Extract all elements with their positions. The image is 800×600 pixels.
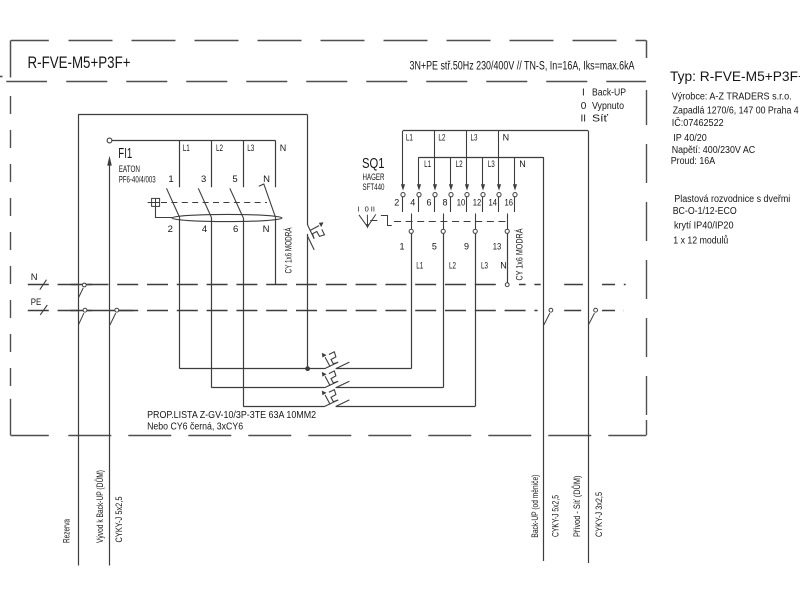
svg-text:L2: L2 [449, 260, 456, 270]
svg-text:Plastová rozvodnice s dveřmi: Plastová rozvodnice s dveřmi [674, 194, 790, 205]
svg-text:BC-O-1/12-ECO: BC-O-1/12-ECO [673, 206, 737, 217]
cable label CY 1x6 MODRA at FI1 [283, 227, 294, 273]
cable label Vyvod k Back-UP [94, 470, 106, 543]
switch SQ1 type label [363, 181, 385, 192]
svg-text:12: 12 [473, 198, 482, 208]
svg-text:Nebo CY6 černá, 3xCY6: Nebo CY6 černá, 3xCY6 [147, 422, 243, 433]
wire: riser SQ1 pole9 [336, 233, 476, 406]
type info text block [670, 69, 800, 167]
svg-text:2: 2 [168, 224, 173, 235]
SQ1 selector symbol [359, 214, 392, 228]
cable label CYKY-J 5x2,5 left [114, 497, 125, 543]
svg-text:5: 5 [432, 242, 437, 252]
PE bus label [31, 296, 42, 307]
svg-text:L3: L3 [488, 159, 495, 169]
switch SQ1 designation [362, 156, 385, 172]
svg-text:N: N [280, 143, 287, 153]
FI1 pole L2 top stub [211, 141, 213, 188]
busbar link fuse symbol L2 [322, 371, 350, 388]
svg-text:L2: L2 [438, 133, 445, 143]
svg-text:IČ:07462522: IČ:07462522 [672, 118, 724, 129]
wire: FI1 L3 to busbar link [243, 406, 324, 408]
svg-text:SFT440: SFT440 [363, 181, 385, 192]
svg-text:9: 9 [464, 242, 469, 252]
svg-text:N: N [500, 260, 507, 270]
svg-text:6: 6 [426, 198, 431, 208]
svg-text:L1: L1 [416, 260, 423, 270]
svg-text:II: II [371, 204, 375, 213]
svg-text:0: 0 [365, 204, 369, 213]
svg-text:N: N [503, 133, 510, 143]
SQ1 output terminal circles [409, 229, 509, 233]
svg-text:13: 13 [493, 242, 502, 252]
cabinet designation label R-FVE-M5+P3F+ [28, 53, 131, 72]
enclosure/title box dashed frame top edge [11, 40, 647, 77]
wire: riser SQ1 pole1 [336, 233, 412, 369]
svg-text:EATON: EATON [119, 163, 140, 174]
PE bus tap switch to backup output wire [110, 308, 119, 325]
svg-text:Přívod - Síť (DŮM): Přívod - Síť (DŮM) [571, 476, 583, 538]
svg-text:3: 3 [201, 174, 206, 185]
svg-text:Rezerva: Rezerva [62, 519, 73, 543]
PE bus tap switch to backup supply [544, 308, 553, 325]
wire: FI1 L1 to busbar link [180, 368, 325, 370]
grid feeder phase labels [406, 133, 509, 143]
svg-text:CYKY-J 5x2,5: CYKY-J 5x2,5 [114, 497, 125, 543]
svg-text:CY 1x6 MODRÁ: CY 1x6 MODRÁ [514, 228, 525, 280]
svg-text:1: 1 [168, 174, 173, 185]
FI1 test button [148, 198, 160, 206]
svg-text:14: 14 [489, 198, 498, 208]
svg-text:L1: L1 [406, 133, 413, 143]
FI1 pole L1 top stub [179, 141, 181, 188]
svg-text:PE: PE [31, 296, 42, 307]
PE bus line [28, 305, 624, 315]
wire: FI1 L2 to busbar link [212, 387, 325, 389]
cable label Back-UP od menice [530, 475, 541, 538]
wire: FI1 L1 output down [179, 218, 181, 369]
svg-text:N: N [31, 271, 38, 282]
wire: backup output vertical [109, 160, 111, 566]
svg-text:10: 10 [457, 198, 466, 208]
FI1 top wire [112, 140, 276, 142]
bus dash gaps at tap points [500, 282, 602, 313]
backup feeder phase labels [424, 159, 526, 169]
svg-text:I: I [357, 204, 359, 213]
SQ1 output phase labels [416, 260, 507, 270]
cable label Rezerva [62, 519, 73, 543]
svg-text:16: 16 [505, 198, 514, 208]
svg-text:L1: L1 [183, 143, 190, 153]
wire: SQ1 N output to N bus [505, 233, 509, 286]
SQ1 pin numbers bottom [399, 242, 501, 252]
FI1 contact blade pole N with hook [259, 184, 276, 218]
RCD FI1 maker label [119, 163, 140, 174]
title box bottom dashed line [6, 81, 646, 83]
wire: loop top horizontal [78, 114, 308, 116]
busbar link fuse symbol L3 [322, 390, 350, 407]
FI1 contact blade pole 1 [167, 188, 180, 217]
switch position legend [581, 88, 627, 125]
page edge tick [0, 76, 3, 78]
svg-text:L2: L2 [216, 143, 223, 153]
svg-text:Síť: Síť [592, 114, 608, 125]
svg-text:FI1: FI1 [118, 146, 132, 162]
PE bus tap switch to reserve wire [78, 308, 87, 325]
N bus label [31, 271, 38, 282]
busbar link fuse symbol L1 [322, 352, 350, 369]
svg-text:N: N [263, 224, 270, 235]
svg-text:I: I [582, 88, 585, 99]
wire: backup supply vertical [543, 157, 545, 561]
FI1 pole N top stub [275, 141, 277, 188]
wire: riser SQ1 pole5 [336, 233, 444, 388]
FI1 mechanism dashed link [161, 202, 267, 204]
svg-text:L2: L2 [456, 159, 463, 169]
cable label CYKY-J 5x2,5 right [551, 495, 562, 537]
svg-text:Vývod k Back-UP (DŮM): Vývod k Back-UP (DŮM) [94, 470, 106, 543]
svg-text:II: II [581, 114, 587, 125]
wire: loop right vertical upper [307, 115, 309, 226]
wire: grid supply vertical [588, 131, 590, 563]
FI1 pin numbers top [168, 174, 270, 185]
wire: loop right vertical lower [307, 234, 309, 369]
cable label Privod - Sit [571, 476, 583, 538]
svg-text:Vypnuto: Vypnuto [592, 101, 624, 112]
SQ1 pin numbers top [394, 198, 513, 208]
svg-text:IP 40/20: IP 40/20 [673, 133, 707, 144]
wire: reserve line vertical [78, 115, 80, 566]
svg-text:0: 0 [581, 101, 587, 112]
enclosure left dashed border [10, 96, 12, 435]
PE bus tap switch to grid supply [588, 308, 597, 325]
SQ1 input terminal circles [401, 193, 517, 197]
disconnect symbol in loop wire [308, 222, 325, 250]
SQ1 input arrows [401, 131, 517, 191]
RCD FI1 designation [118, 146, 132, 162]
wire: grid feeder top line [403, 130, 588, 132]
junction dot at loop and L1 link [305, 366, 310, 371]
SQ1 mechanism dashed link [394, 221, 508, 223]
svg-text:N: N [519, 159, 526, 169]
svg-text:1: 1 [399, 242, 404, 252]
system description text [410, 60, 635, 72]
N bus tap switch to reserve wire [78, 283, 86, 298]
svg-text:Zapadlá 1270/6, 147 00 Praha 4: Zapadlá 1270/6, 147 00 Praha 4 [673, 105, 800, 116]
wire: FI1 L3 output down [243, 218, 245, 407]
svg-text:Typ: R-FVE-M5+P3F+: Typ: R-FVE-M5+P3F+ [670, 69, 800, 84]
svg-text:5: 5 [232, 174, 237, 185]
enclosure bottom dashed border [11, 435, 647, 437]
wire: backup feeder line [419, 157, 544, 159]
wire: FI1 N output to N bus [275, 218, 277, 285]
svg-text:Napětí: 400/230V AC: Napětí: 400/230V AC [672, 145, 756, 156]
svg-text:PROP.LISTA Z-GV-10/3P-3TE 63A: PROP.LISTA Z-GV-10/3P-3TE 63A 10MM2 [147, 410, 316, 421]
enclosure right dashed border [646, 90, 648, 435]
wire: FI1 L2 output down [211, 218, 213, 388]
svg-text:Back-UP (od měniče): Back-UP (od měniče) [530, 475, 541, 538]
svg-text:SQ1: SQ1 [362, 156, 385, 172]
svg-text:L3: L3 [481, 260, 488, 270]
N bus line [28, 280, 626, 290]
SQ1 input contact stubs [403, 197, 515, 212]
svg-text:4: 4 [410, 198, 415, 208]
svg-text:CYKY-J 5x2,5: CYKY-J 5x2,5 [551, 495, 562, 537]
cable label CYKY-J 3x2,5 [594, 492, 605, 537]
RCD FI1 type label [119, 174, 156, 185]
SQ1 pole blades [412, 214, 508, 230]
svg-text:8: 8 [442, 198, 447, 208]
svg-text:6: 6 [233, 224, 238, 235]
svg-text:CYKY-J 3x2,5: CYKY-J 3x2,5 [594, 492, 605, 537]
FI1 toroid ellipse [172, 214, 282, 221]
SQ1 position text [357, 204, 375, 213]
terminal circle FI1 line side [107, 138, 112, 143]
enclosure info text block [673, 194, 791, 247]
switch SQ1 maker label [363, 171, 385, 182]
FI1 contact blade pole 3 [230, 188, 243, 217]
svg-text:krytí IP40/IP20: krytí IP40/IP20 [674, 220, 734, 231]
svg-text:4: 4 [202, 224, 207, 235]
FI1 phase labels [183, 143, 286, 153]
svg-text:Výrobce: A-Z TRADERS s.r.o.: Výrobce: A-Z TRADERS s.r.o. [672, 91, 792, 102]
svg-text:L3: L3 [247, 143, 254, 153]
svg-text:L3: L3 [471, 133, 478, 143]
svg-text:Proud: 16A: Proud: 16A [671, 156, 716, 167]
cable label CY 1x6 MODRA at SQ1 [514, 228, 525, 280]
svg-text:PF6-40/4/003: PF6-40/4/003 [119, 174, 156, 185]
svg-text:L1: L1 [424, 159, 431, 169]
svg-text:3N+PE stř.50Hz 230/400V // TN-: 3N+PE stř.50Hz 230/400V // TN-S, In=16A,… [410, 60, 635, 72]
FI1 test button wire [156, 206, 173, 217]
svg-text:1 x 12 modulů: 1 x 12 modulů [673, 235, 728, 246]
svg-text:2: 2 [394, 198, 399, 208]
FI1 pole L3 top stub [243, 141, 245, 188]
FI1 pin numbers bottom [168, 224, 270, 235]
svg-text:Back-UP: Back-UP [592, 88, 626, 99]
FI1 contact blade pole 2 [198, 188, 211, 217]
svg-text:R-FVE-M5+P3F+: R-FVE-M5+P3F+ [28, 53, 131, 72]
busbar link label [147, 410, 316, 432]
arrow up to FI1 terminal [107, 156, 112, 166]
svg-text:CY 1x6 MODRÁ: CY 1x6 MODRÁ [283, 227, 294, 273]
